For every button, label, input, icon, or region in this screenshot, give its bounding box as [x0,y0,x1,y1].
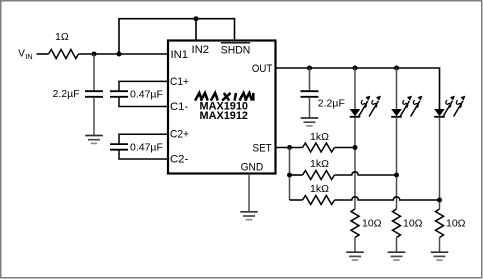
svg-text:MAX1912: MAX1912 [200,110,249,122]
svg-text:1kΩ: 1kΩ [310,183,329,195]
wire resistor to IC IN1 [79,53,169,55]
svg-text:10Ω: 10Ω [403,217,423,229]
ground IC GND pin [240,212,258,220]
wire input cap upper stem [93,54,95,91]
wire GND pin stem [248,174,250,212]
node dot row2 LED2 [394,173,399,178]
ground col3 [431,252,449,260]
wire OUT rail [276,68,440,109]
wire SET stub [276,147,303,149]
node dot row3 LED3 [437,198,442,203]
wire output cap stem [309,68,311,91]
svg-text:10Ω: 10Ω [362,217,382,229]
svg-text:C1+: C1+ [170,76,189,88]
svg-text:IN1: IN1 [171,49,189,61]
capacitor C2 0.47uF flying cap loop [110,134,168,159]
wire output cap lower stem [309,97,311,118]
svg-text:SHDN: SHDN [221,45,250,57]
node dot row1 LED1 [353,145,358,150]
svg-text:OUT: OUT [252,63,272,75]
svg-text:1Ω: 1Ω [55,31,69,43]
ground output cap [301,118,319,126]
wire row1 to LED1 [335,147,356,149]
wire SET column [289,148,291,201]
wire LED1 column [354,68,356,109]
svg-text:IN: IN [25,52,33,61]
node dot IN2 branch [194,16,199,21]
wire col3 to ground [439,238,441,253]
svg-text:1kΩ: 1kΩ [310,131,329,143]
ground col1 [346,252,364,260]
wire row3 left corner [290,199,303,201]
svg-text:C2-: C2- [170,153,188,165]
node VIN label [18,49,33,61]
node dot SET [287,145,292,150]
svg-text:SET: SET [253,143,272,155]
wire IN2 drop [195,19,197,41]
ground col2 [388,252,406,260]
capacitor C1 0.47uF flying cap loop [110,81,168,106]
MAXIM logo [195,93,253,101]
node dot at input cap [92,52,97,57]
svg-text:0.47µF: 0.47µF [130,89,163,101]
svg-text:V: V [18,49,25,60]
resistor 1k row2 [303,171,335,180]
wire col1 to ground [354,238,356,253]
wire LED2 column [396,68,398,109]
resistor R1 1ohm [49,50,79,59]
wire row3 to LED3 with hops over LED1 LED2 [335,197,440,200]
node dot LED2 [394,66,399,71]
capacitor 2.2uF output [301,91,319,97]
resistor 10ohm col3 [436,209,444,238]
LED D3 [434,96,465,117]
svg-text:C2+: C2+ [170,129,189,141]
wire input cap lower stem [93,97,95,135]
svg-text:GND: GND [241,161,264,173]
wire col2 to ground [396,238,398,253]
node dot output cap [307,66,312,71]
resistor 10ohm col2 [393,209,401,238]
svg-text:10Ω: 10Ω [446,217,466,229]
wire row2 to LED2 with hop over LED1 [335,172,397,175]
wire VIN to resistor [37,53,49,55]
resistor 1k row3 [303,196,335,205]
resistor 1k row1 [303,143,335,152]
node dot row2 left [287,173,292,178]
svg-text:IN2: IN2 [192,44,210,56]
svg-text:2.2µF: 2.2µF [53,88,80,100]
IC U1 MAX1910/MAX1912 box [168,41,276,174]
capacitor 2.2uF input [85,91,103,97]
node dot at top-rail branch [117,52,122,57]
wire top rail [119,19,235,54]
svg-text:2.2µF: 2.2µF [318,98,345,110]
svg-text:0.47µF: 0.47µF [130,142,163,154]
svg-text:1kΩ: 1kΩ [310,158,329,170]
svg-text:C1-: C1- [170,101,188,113]
node dot LED1 [353,66,358,71]
LED D1 [350,96,381,117]
ground input cap [85,136,103,144]
wire row2 left [290,174,303,176]
LED D2 [391,96,422,117]
resistor 10ohm col1 [351,209,359,238]
